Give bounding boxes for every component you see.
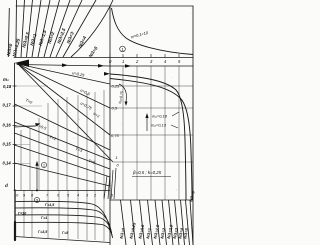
d chart grid verticals <box>24 190 104 241</box>
svg-text:0,15: 0,15 <box>3 142 12 147</box>
gamma curves <box>15 201 113 242</box>
wire bN/A=5 <box>190 200 193 245</box>
wire horizontal line y57 full width <box>14 57 193 59</box>
labels right scale <box>111 84 120 168</box>
labels top fan rotated <box>6 27 99 58</box>
wire horizontal line y66 <box>17 65 193 67</box>
circled 2 d chart <box>34 197 39 202</box>
arrow up to circle 1 with dot <box>35 161 38 192</box>
wire bN/A=2.5 <box>169 200 174 245</box>
wire u=1 <box>18 64 113 162</box>
svg-text:0,25: 0,25 <box>112 84 121 89</box>
svg-text:1: 1 <box>122 59 124 64</box>
wire N/A=0.5 <box>27 0 33 57</box>
circled 1 mini chart <box>120 46 126 52</box>
wire bN/A=4 <box>186 200 190 245</box>
wire bN/A=0.25 <box>131 200 136 245</box>
node left axis m2 <box>14 63 16 190</box>
wire bN/A=3 <box>175 200 180 245</box>
wire N/A=4 <box>63 0 96 57</box>
curve G d <box>15 222 113 238</box>
wire T=3 <box>15 145 111 177</box>
svg-text:0,5: 0,5 <box>112 106 118 111</box>
wire u=0.25 <box>18 64 110 84</box>
arrows <box>62 63 131 75</box>
right chart grid verticals <box>123 66 179 200</box>
arrow up at x147 <box>145 113 148 131</box>
wire bN/A=2 <box>162 200 167 245</box>
node mini axis ticks <box>110 54 179 58</box>
wire N/A=3 <box>56 0 82 57</box>
labels mini chart <box>109 59 181 64</box>
curve m2=0.18 <box>110 74 186 200</box>
svg-text:0,16: 0,16 <box>3 123 12 128</box>
curve G a <box>15 201 111 231</box>
scan noise speckles <box>3 6 192 242</box>
wire N/A=5 <box>71 0 113 57</box>
wire bN/A=3.5 <box>181 200 185 245</box>
bottom fan lines <box>121 200 194 245</box>
curve m2=0.13 <box>110 79 192 201</box>
wire bN/A=0.5 <box>140 200 145 245</box>
right chart grid horizontals <box>110 86 193 162</box>
wire N/A=1.5 <box>38 0 50 57</box>
svg-text:0,17: 0,17 <box>3 103 12 108</box>
wire u=0.75 <box>18 64 110 135</box>
wire u=0.5 <box>18 64 110 108</box>
node left axis d-chart <box>14 190 16 222</box>
curve G c <box>15 215 113 236</box>
grid horizontals m2 levels <box>15 86 49 164</box>
arrow curved at N1 label <box>119 84 128 106</box>
svg-text:Γ=10: Γ=10 <box>18 212 26 216</box>
wire T=1 <box>15 133 111 169</box>
labels u lines <box>72 70 101 119</box>
arrow on y66 line a <box>62 63 68 67</box>
node vertex wedge <box>15 60 30 68</box>
svg-text:β=0,5 ; k=0,25: β=0,5 ; k=0,25 <box>132 170 162 175</box>
node left axis ticks <box>13 86 17 164</box>
wire hyperbola curve m=0.1-10 <box>112 8 194 55</box>
svg-text:d: d <box>5 183 8 188</box>
wire N/A=1 <box>32 0 41 57</box>
curve G bottom boundary <box>15 237 111 243</box>
wire T hatch right <box>104 168 116 199</box>
labels T lines <box>25 97 97 165</box>
svg-text:0,75: 0,75 <box>111 133 120 138</box>
wire N/A=2 <box>44 0 60 57</box>
wire T=5 <box>15 163 111 186</box>
svg-text:m₂=0,13: m₂=0,13 <box>151 123 167 128</box>
labels gamma curves <box>18 203 69 235</box>
svg-text:Γ=1: Γ=1 <box>41 216 47 220</box>
wire N/A=0.25 <box>21 0 25 57</box>
wire bN/A=1.5 <box>155 200 160 245</box>
circled 1 middle chart <box>41 162 46 167</box>
node central vertical axis x110 <box>109 6 111 245</box>
svg-text:m₂: m₂ <box>3 77 9 82</box>
svg-text:Γ=3,5: Γ=3,5 <box>38 230 48 234</box>
top fan N/lambda lines <box>8 0 113 57</box>
svg-text:Γ=5: Γ=5 <box>62 231 69 235</box>
svg-text:4: 4 <box>77 194 79 198</box>
frame top border <box>16 5 193 7</box>
T lines <box>15 104 111 186</box>
arrow on curve start <box>104 72 110 76</box>
labels bottom fan rotated <box>119 221 190 239</box>
wire T=0 <box>15 104 111 150</box>
frame right border <box>192 6 194 245</box>
svg-text:Γ=1,5: Γ=1,5 <box>45 203 55 207</box>
wire bN/A=0 <box>121 200 127 245</box>
labels shared axis numbers <box>14 194 114 198</box>
wire T=0.5 <box>15 122 111 160</box>
wire bN/A=1 <box>148 200 153 245</box>
wire N/A=2.5 <box>50 0 70 57</box>
curve G b <box>15 208 112 233</box>
arrow horizontal at y127 <box>15 123 41 127</box>
svg-text:1: 1 <box>116 155 118 160</box>
grid verticals middle chart <box>21 90 104 190</box>
svg-text:1: 1 <box>103 194 105 198</box>
arrow on y66 line c <box>125 64 131 68</box>
wire N/A=left edge <box>8 8 9 57</box>
node shared axis y190 <box>14 190 110 192</box>
labels m2 curve arrows <box>171 112 179 128</box>
wire N/A=0 <box>15 0 18 57</box>
svg-text:0,18: 0,18 <box>3 84 12 89</box>
arrow on y66 line b <box>98 64 104 68</box>
u fan lines <box>18 64 113 162</box>
node right chart line y200 <box>110 199 193 201</box>
